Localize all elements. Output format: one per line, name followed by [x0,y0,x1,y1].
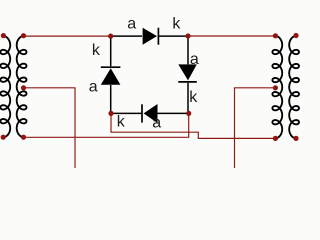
transformer T1 secondary winding L2 center-tapped [17,36,27,137]
pin dot L2 top [21,33,26,38]
wire net N6 node BL to right winding bottom [111,113,275,138]
svg-text:a: a [89,78,98,95]
node TR [185,33,190,38]
diode D1 top horizontal a-left k-right [111,28,188,45]
diode D4 bottom horizontal k-left points left [111,104,189,123]
wire net N5 left secondary bottom to node BR [23,113,188,137]
node BR [186,111,191,116]
svg-text:k: k [172,16,181,33]
svg-text:a: a [152,114,161,131]
pin dot L3 bottom [273,136,278,141]
svg-text:k: k [189,89,198,106]
pin dot L2 bottom [21,135,26,140]
pin dot L1 bottom [1,135,6,140]
wire net N4 right center-tap to bottom edge [235,88,276,168]
node TL [108,34,113,39]
wire net N2 top-right rail [188,35,275,37]
junction right center tap [273,85,278,90]
svg-text:k: k [117,114,126,131]
pin dot L3 top [273,33,278,38]
junction left center tap [21,85,26,90]
wire net N1 top-left rail [24,35,111,37]
svg-text:a: a [127,16,136,33]
node BL [108,111,113,116]
transformer T1 primary winding L1 [0,36,10,137]
wire net N3 left center-tap to bottom edge [24,88,76,168]
transformer T2 secondary winding L4 [289,36,299,139]
pin dot L4 top [293,33,298,38]
svg-text:k: k [92,42,101,59]
transformer T2 primary winding L3 center-tapped [272,36,282,139]
pin dot L4 bottom [293,136,298,141]
pin dot L1 top [1,33,6,38]
svg-text:a: a [190,51,199,68]
diode D3 right vertical a-top points down [178,36,197,113]
diode D2 left vertical k-top points up [101,36,121,113]
